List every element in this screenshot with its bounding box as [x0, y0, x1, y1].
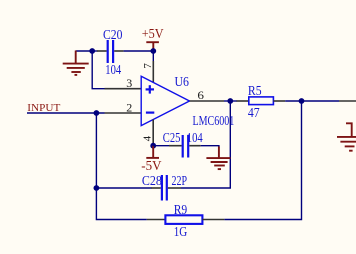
op-amp U6 pin 4 [152, 119, 154, 145]
capacitor C28 [151, 175, 181, 201]
wire: C25 right to ground elbow [201, 146, 219, 148]
wire: pin 6 to R5 [224, 100, 237, 102]
capacitor C25 [169, 135, 201, 158]
wire: junction C down to R9 left [96, 113, 146, 220]
wire: junction B down to pin 7 [152, 51, 154, 62]
junction B [150, 48, 156, 54]
op-amp U1 pin 7 [152, 61, 154, 83]
wire: C28 right to output vertical [181, 101, 230, 188]
svg-text:104: 104 [187, 130, 203, 145]
svg-text:47: 47 [248, 105, 260, 120]
svg-text:2: 2 [126, 101, 132, 115]
svg-text:R5: R5 [248, 83, 262, 98]
svg-text:+5V: +5V [142, 26, 164, 41]
svg-text:R9: R9 [174, 202, 188, 217]
svg-text:7: 7 [142, 63, 154, 69]
svg-text:6: 6 [197, 88, 204, 102]
wire: junction F down to R9 right [224, 101, 301, 220]
wire: junction D to C25 [153, 145, 169, 147]
wire: junction G to C28 [96, 187, 151, 189]
svg-text:LMC6001: LMC6001 [193, 113, 235, 128]
svg-text:104: 104 [105, 62, 121, 77]
op-amp U6 body [141, 76, 189, 125]
wire: junction F to right [302, 100, 340, 102]
wire: top-left from ground elbow to junction A [76, 50, 93, 52]
ground GND1 (left) [63, 51, 89, 75]
wire: R5 to junction F [285, 100, 301, 102]
wire: junction A to C20 left pin [92, 50, 97, 52]
junction G [94, 185, 100, 191]
op-amp U1 pin 3 [105, 88, 142, 90]
op-amp U6 pin 6 [190, 100, 225, 102]
pin of off-sheet part (right edge) [339, 100, 356, 102]
wire INPUT [27, 112, 105, 114]
svg-text:C25: C25 [163, 130, 181, 145]
op-amp U1 pin 2 [105, 112, 142, 114]
svg-text:C28: C28 [142, 173, 162, 188]
wire: C20 right pin to junction B [124, 50, 154, 52]
wire: junction A down and right to pin 3 [92, 51, 104, 89]
svg-text:3: 3 [126, 76, 132, 90]
svg-text:-5V: -5V [141, 158, 162, 173]
ground GND2 (middle) [206, 147, 230, 170]
resistor R5 [237, 97, 286, 105]
svg-text:4: 4 [141, 135, 153, 141]
svg-text:C20: C20 [103, 27, 122, 42]
junction D [150, 143, 156, 149]
capacitor C20 [97, 40, 124, 63]
junction A [89, 48, 95, 54]
svg-text:22P: 22P [172, 173, 188, 188]
svg-text:1G: 1G [174, 224, 188, 239]
junction F [299, 98, 305, 104]
resistor R9 [147, 215, 225, 224]
junction C [94, 110, 100, 116]
ground GND3 (right, cropped at edge) [337, 123, 356, 150]
junction E [227, 98, 233, 104]
svg-text:U6: U6 [175, 74, 190, 89]
power +5V [142, 26, 164, 51]
power -5V [141, 146, 162, 174]
